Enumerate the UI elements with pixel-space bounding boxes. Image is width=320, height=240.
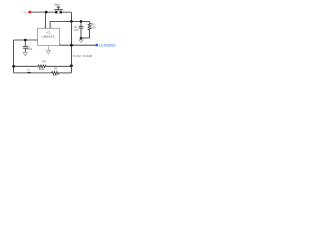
resistor R3 bottom lead [89,30,91,38]
switch S1 right contact [60,11,62,13]
svg-text:Start: Start [54,3,60,7]
svg-text:ULN2803: ULN2803 [99,44,115,48]
ground below C2 [79,38,83,42]
svg-text:10K: 10K [53,74,58,77]
capacitor C1 plates [23,45,28,48]
wire IC pin 2 to left column [14,39,38,41]
resistor R3 top lead [89,21,91,23]
op-amp/timer IC1 box [38,28,60,45]
wire R3 bottom to C2 bottom [81,37,90,39]
wire switch to node corner [62,12,72,21]
svg-text:LM555C: LM555C [42,35,56,39]
svg-text:D1,D2 : 1N4148: D1,D2 : 1N4148 [73,54,92,58]
diode D1 blob on bottom rail [27,72,30,73]
svg-text:2: 2 [35,42,36,44]
svg-text:560K: 560K [39,68,45,71]
wire bottom rail right [59,72,72,74]
svg-text:.1uF: .1uF [74,29,79,32]
svg-text:4: 4 [51,27,52,29]
capacitor C1 top lead [24,40,26,46]
wire node A to IC pin 4 [50,21,71,28]
wire bottom rail [14,72,52,74]
node VCC red pad [29,11,31,13]
svg-text:10K: 10K [91,27,96,30]
junction dot output [70,44,73,47]
resistor R3 zigzag [88,23,91,30]
ground below C1 [23,52,27,56]
switch S1 left contact [55,11,57,13]
svg-text:8: 8 [44,27,45,29]
junction dot at C2 top [80,20,83,23]
junction dot at C1 [24,39,27,42]
junction dot at ground node [80,37,83,40]
resistor R4 zigzag [38,65,46,68]
resistor R5 zigzag [52,72,59,75]
capacitor C2 plates [79,25,84,28]
capacitor C2 top lead [80,21,82,26]
switch S1 bar [54,8,62,11]
capacitor C2 bottom lead [80,28,82,38]
wire node A to R3 [71,20,89,22]
wire output vertical [70,21,72,73]
node output blue pad [96,44,98,46]
capacitor C1 bottom lead [24,49,26,53]
junction dot on VCC rail [45,11,48,14]
svg-text:.05uF: .05uF [27,49,33,51]
wire mid rail left [14,65,38,67]
wire mid rail right [46,65,71,67]
ground below IC1 [46,45,50,54]
wire VCC rail to IC pin 8 [45,12,47,28]
junction dot left mid [12,65,15,68]
wire IC pin 3 to output node [60,44,96,46]
wire left vertical [13,40,15,73]
switch S1 actuator [57,6,60,9]
junction dot mid right [70,64,73,67]
junction dot node A [70,20,73,23]
wire VCC rail [31,11,55,13]
